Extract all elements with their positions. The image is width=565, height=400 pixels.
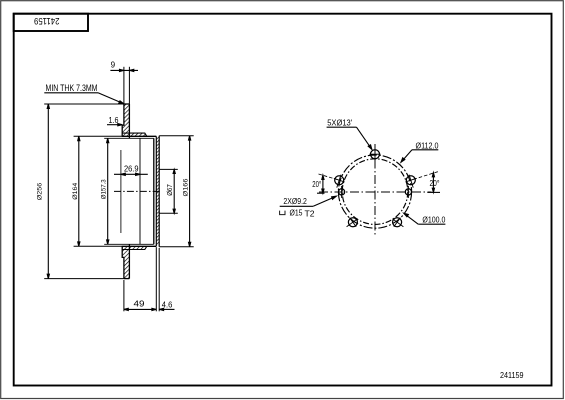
hat ridge band bottom	[122, 246, 147, 249]
min thk leader	[44, 92, 98, 94]
dimension lines with arrows	[44, 69, 190, 310]
dim D157.3	[107, 138, 109, 244]
hat ridge top outline	[122, 133, 147, 136]
rotor left face lower	[122, 246, 124, 278]
bolt hole upper-right	[406, 176, 415, 185]
dim 26.9	[114, 173, 148, 175]
hatched sections	[122, 104, 159, 279]
flange right face	[158, 136, 160, 247]
svg-text:Ø157.3: Ø157.3	[101, 179, 108, 199]
svg-text:MIN THK 7.3MM: MIN THK 7.3MM	[46, 83, 98, 93]
bolt hole top	[371, 150, 380, 159]
flange left face	[155, 136, 157, 246]
hat ridge bottom outline	[122, 246, 147, 249]
svg-text:Ø100.0: Ø100.0	[422, 215, 445, 225]
dim D166	[189, 136, 191, 247]
hat inner top + ext	[104, 137, 154, 139]
svg-text:2XØ9.2: 2XØ9.2	[283, 196, 307, 206]
svg-text:1.6: 1.6	[109, 115, 119, 125]
flange band top	[156, 137, 159, 169]
flange band middle	[156, 169, 159, 213]
ext D256 top/bottom	[44, 103, 124, 105]
centerline horizontal	[319, 191, 432, 193]
bolt hole lower-right	[393, 218, 402, 227]
svg-text:241159: 241159	[34, 16, 60, 26]
dim 49	[124, 308, 156, 310]
dim 4.6	[159, 308, 174, 310]
centerline horizontal left view	[114, 190, 161, 192]
small hole left D9.2	[339, 189, 345, 195]
rotor right face lower	[128, 244, 130, 278]
leader 2xD9.2	[280, 205, 314, 207]
left view texts	[46, 60, 173, 310]
leaders & labels right view	[280, 127, 446, 224]
hat outer bottom line	[122, 245, 157, 247]
ext 49/4.6 verticals	[123, 280, 125, 311]
rotor lower section	[122, 250, 129, 258]
dim 9	[110, 69, 138, 71]
svg-text:Ø112.0: Ø112.0	[416, 140, 439, 150]
leader 5xD13	[327, 126, 357, 128]
bolt circle D112	[338, 155, 411, 228]
circle D100	[342, 159, 408, 225]
dim D256	[47, 104, 49, 279]
ext D164 top/bottom	[74, 135, 122, 137]
svg-text:20°: 20°	[430, 178, 440, 188]
20 deg left dim	[322, 175, 324, 194]
rotor upper section	[124, 104, 129, 125]
dim D164	[78, 136, 80, 246]
hat inner bottom + ext	[104, 243, 154, 245]
ext 9 dim verticals	[123, 67, 125, 104]
title box top-left	[14, 14, 88, 31]
rotor right face upper	[128, 104, 130, 138]
svg-text:5XØ13': 5XØ13'	[327, 117, 352, 127]
rotor bottom edge	[124, 278, 129, 280]
svg-text:T2: T2	[305, 208, 315, 218]
bolt hole upper-left	[335, 176, 344, 185]
svg-text:9: 9	[111, 60, 116, 70]
leader D112	[412, 149, 438, 151]
interior line A	[120, 150, 122, 233]
20 deg right dim	[432, 173, 434, 193]
bolt hole lower-left	[348, 218, 357, 227]
extension lines	[44, 67, 194, 311]
svg-text:26.9: 26.9	[124, 163, 139, 173]
flange band bottom	[156, 213, 159, 244]
svg-text:241159: 241159	[500, 370, 524, 380]
flange inner face	[153, 138, 155, 244]
svg-text:Ø256: Ø256	[37, 182, 44, 200]
centerline vertical	[374, 144, 376, 237]
dim D67	[173, 169, 175, 213]
svg-text:Ø67: Ø67	[167, 184, 174, 196]
svg-text:Ø15: Ø15	[290, 207, 303, 217]
interior line B	[139, 138, 141, 244]
svg-text:20°: 20°	[312, 179, 321, 189]
svg-text:49: 49	[134, 299, 145, 309]
svg-text:Ø164: Ø164	[72, 182, 79, 199]
counterbore symbol	[280, 211, 285, 215]
dim 1.6 leader	[107, 124, 122, 126]
small hole right D9.2	[405, 189, 411, 195]
hat ridge band top	[122, 133, 147, 136]
rotor left face upper	[122, 104, 124, 136]
rotor top edge	[124, 103, 129, 105]
ext D166 top/bottom	[159, 135, 194, 137]
svg-text:4.6: 4.6	[162, 299, 173, 309]
hat outer top line	[122, 135, 157, 137]
svg-text:Ø166: Ø166	[182, 178, 189, 196]
leader D100	[418, 223, 445, 225]
ext D67 top/bottom	[159, 168, 177, 170]
hole cross marks	[331, 148, 418, 231]
